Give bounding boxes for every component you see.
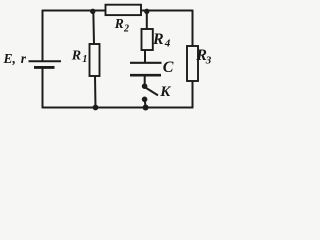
svg-text:C: C [163,59,174,76]
wire capacitor to switch lead [144,75,146,85]
wire R1 branch lower lead [94,76,97,108]
svg-text:1: 1 [82,54,87,65]
capacitor C bottom plate [130,74,161,77]
battery E,r short thick plate [34,66,55,69]
wire left vertical lower (battery to bottom) [42,67,44,108]
switch K blade [146,88,158,96]
node D (junction dot on bottom wire below K) [143,105,149,111]
svg-text:R: R [152,31,164,48]
svg-text:2: 2 [123,24,129,35]
wire switch to bottom wire lead [144,99,147,107]
switch K upper contact dot [142,83,148,89]
svg-text:R: R [114,16,124,31]
battery E,r long plate [29,60,62,62]
wire bottom horizontal [43,107,193,109]
wire right vertical [192,10,194,109]
svg-text:r: r [21,51,27,66]
node B (junction dot bottom of R1 branch) [93,105,99,111]
wire top horizontal [43,10,193,12]
node A (junction dot top of R1 branch) [90,9,95,14]
resistor R1 [90,44,100,76]
node C1 (junction dot top of R4 branch) [144,9,149,14]
wire R4 to capacitor lead [144,50,146,62]
switch K lower contact dot [142,97,148,103]
capacitor C top plate [130,62,162,64]
wire left vertical upper (battery to top) [42,10,44,62]
resistor R3 [187,46,198,81]
svg-text:R: R [71,49,81,64]
wire R4 branch upper lead [146,11,148,30]
svg-text:4: 4 [164,38,171,50]
svg-text:3: 3 [205,55,212,67]
wire R1 branch upper lead [92,11,95,45]
svg-text:E,: E, [3,51,16,66]
resistor R4 [142,29,153,50]
svg-text:K: K [159,84,171,100]
resistor R2 [106,5,142,15]
